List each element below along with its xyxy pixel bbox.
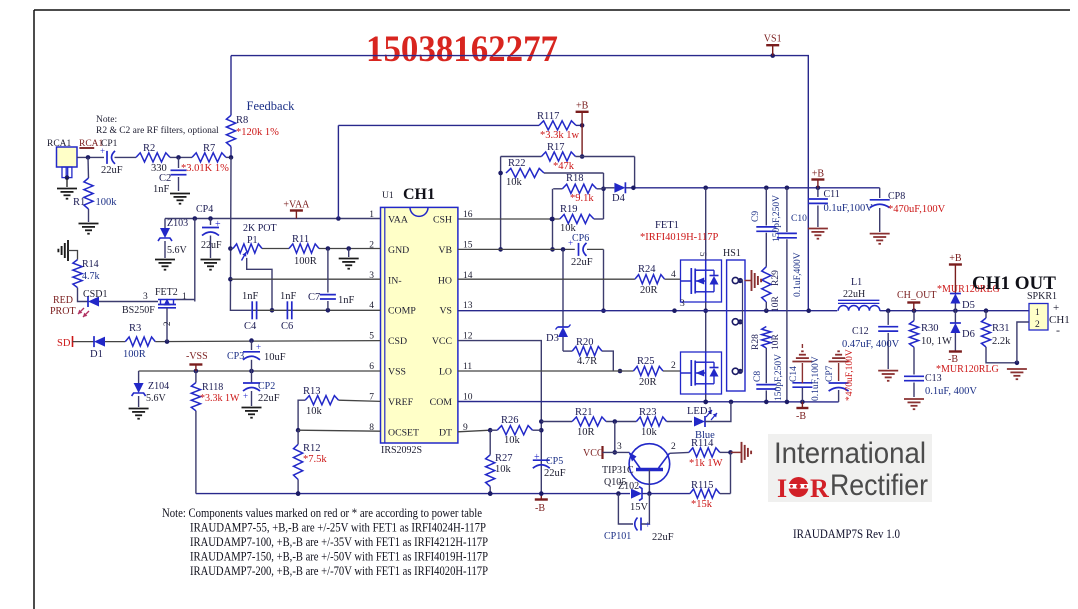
svg-text:R26: R26	[501, 415, 519, 426]
svg-text:+VAA: +VAA	[283, 200, 310, 211]
svg-text:5.6V: 5.6V	[146, 393, 167, 404]
svg-text:R11: R11	[292, 234, 309, 245]
svg-text:20R: 20R	[640, 285, 658, 296]
svg-text:VS: VS	[439, 306, 452, 317]
svg-text:PROT: PROT	[50, 306, 76, 317]
svg-text:R19: R19	[560, 204, 578, 215]
svg-text:C4: C4	[244, 321, 257, 332]
svg-text:R1: R1	[73, 197, 85, 208]
svg-text:R115: R115	[691, 480, 713, 491]
svg-text:22uF: 22uF	[101, 165, 123, 176]
svg-text:10k: 10k	[495, 464, 512, 475]
svg-text:4.7k: 4.7k	[82, 271, 100, 282]
svg-text:1: 1	[182, 292, 187, 302]
svg-text:-B: -B	[535, 503, 545, 514]
svg-text:Z104: Z104	[148, 381, 169, 392]
svg-text:CP5: CP5	[546, 456, 563, 467]
svg-text:R2: R2	[143, 143, 155, 154]
svg-text:C14: C14	[789, 366, 799, 382]
svg-text:CP101: CP101	[604, 531, 631, 542]
svg-text:*470uF,100V: *470uF,100V	[888, 204, 946, 215]
svg-text:0.47uF, 400V: 0.47uF, 400V	[842, 339, 900, 350]
svg-text:+B: +B	[576, 101, 589, 112]
svg-text:IRAUDAMP7-100, +B,-B are +/-35: IRAUDAMP7-100, +B,-B are +/-35V with FET…	[190, 534, 488, 549]
svg-text:R29: R29	[771, 270, 781, 286]
svg-text:4.7R: 4.7R	[577, 356, 597, 367]
svg-text:R8: R8	[236, 115, 248, 126]
svg-text:R22: R22	[508, 158, 526, 169]
svg-text:COMP: COMP	[388, 306, 416, 317]
svg-text:R24: R24	[638, 264, 656, 275]
svg-text:R: R	[810, 474, 829, 503]
svg-text:22uF: 22uF	[571, 257, 593, 268]
svg-text:GND: GND	[388, 245, 409, 256]
svg-text:2K POT: 2K POT	[243, 223, 277, 234]
svg-text:+: +	[243, 391, 248, 401]
svg-text:R25: R25	[637, 356, 655, 367]
svg-text:CP7: CP7	[825, 365, 835, 382]
svg-text:Z102: Z102	[618, 481, 639, 492]
svg-text:COM: COM	[430, 397, 453, 408]
svg-text:IRAUDAMP7S Rev 1.0: IRAUDAMP7S Rev 1.0	[793, 527, 900, 541]
svg-text:LED1: LED1	[687, 406, 713, 417]
svg-text:-VSS: -VSS	[186, 351, 208, 362]
svg-text:100R: 100R	[294, 256, 317, 267]
svg-text:4: 4	[671, 270, 676, 280]
svg-text:150pF,250V: 150pF,250V	[774, 354, 784, 401]
svg-text:Z103: Z103	[167, 218, 188, 229]
svg-text:R114: R114	[691, 438, 714, 449]
svg-text:R3: R3	[129, 323, 141, 334]
svg-text:Note:: Note:	[96, 115, 117, 125]
svg-text:*47k: *47k	[553, 161, 575, 172]
svg-text:1: 1	[1035, 308, 1040, 318]
svg-text:10k: 10k	[306, 406, 323, 417]
svg-text:R27: R27	[495, 453, 513, 464]
svg-text:CSD1: CSD1	[83, 289, 107, 300]
svg-text:100k: 100k	[96, 197, 118, 208]
svg-text:22uF: 22uF	[258, 393, 280, 404]
svg-text:International: International	[774, 437, 926, 470]
svg-text:RED: RED	[53, 295, 73, 306]
svg-text:R12: R12	[303, 443, 321, 454]
svg-text:0.1uF,400V: 0.1uF,400V	[793, 252, 803, 297]
svg-text:*MUR120RLG: *MUR120RLG	[936, 364, 999, 375]
svg-text:CP6: CP6	[572, 233, 589, 244]
svg-text:15038162277: 15038162277	[366, 29, 558, 70]
svg-text:Feedback: Feedback	[247, 99, 296, 113]
svg-text:CSH: CSH	[433, 215, 452, 226]
svg-text:2.2k: 2.2k	[992, 336, 1011, 347]
svg-text:R31: R31	[992, 323, 1010, 334]
svg-text:DT: DT	[439, 427, 452, 438]
svg-text:2: 2	[671, 442, 676, 452]
svg-text:R2 & C2 are RF filters, option: R2 & C2 are RF filters, optional	[96, 125, 219, 136]
svg-text:1nF: 1nF	[338, 295, 355, 306]
svg-text:IRAUDAMP7-200, +B,-B are +/-70: IRAUDAMP7-200, +B,-B are +/-70V with FET…	[190, 563, 488, 578]
svg-text:1nF: 1nF	[153, 184, 170, 195]
svg-text:R23: R23	[639, 407, 657, 418]
svg-text:FET2: FET2	[155, 287, 178, 298]
svg-text:1nF: 1nF	[242, 291, 259, 302]
svg-text:22uF: 22uF	[201, 240, 222, 251]
svg-text:CH_OUT: CH_OUT	[897, 290, 936, 301]
svg-text:R7: R7	[203, 143, 215, 154]
svg-text:20R: 20R	[639, 377, 657, 388]
svg-text:3: 3	[680, 299, 685, 309]
svg-text:C6: C6	[281, 321, 293, 332]
svg-text:-B: -B	[796, 411, 806, 422]
svg-text:2: 2	[1035, 320, 1040, 330]
svg-text:Note: Components values marked: Note: Components values marked on red or…	[162, 505, 482, 520]
svg-text:*1k 1W: *1k 1W	[689, 458, 723, 469]
svg-text:VSS: VSS	[388, 367, 406, 378]
svg-text:-: -	[1056, 323, 1060, 337]
svg-text:+B: +B	[949, 253, 962, 264]
svg-text:0.1uF, 400V: 0.1uF, 400V	[925, 386, 977, 397]
svg-text:10k: 10k	[641, 427, 658, 438]
svg-text:BS250F: BS250F	[122, 305, 155, 316]
svg-text:R21: R21	[575, 407, 593, 418]
svg-text:CP4: CP4	[196, 204, 213, 215]
svg-text:10R: 10R	[771, 334, 781, 351]
svg-text:C8: C8	[753, 371, 763, 382]
svg-text:2: 2	[671, 361, 676, 371]
svg-text:CH1 OUT: CH1 OUT	[972, 273, 1056, 294]
svg-text:HO: HO	[438, 275, 452, 286]
svg-text:10, 1W: 10, 1W	[921, 336, 952, 347]
svg-text:VREF: VREF	[388, 397, 414, 408]
svg-text:3: 3	[143, 292, 148, 302]
svg-text:22uF: 22uF	[544, 468, 566, 479]
svg-text:LO: LO	[439, 367, 452, 378]
svg-text:15V: 15V	[630, 502, 649, 513]
svg-text:*470uF,100V: *470uF,100V	[845, 349, 855, 401]
svg-text:3: 3	[617, 442, 622, 452]
svg-text:2: 2	[162, 322, 172, 327]
svg-text:L1: L1	[851, 277, 862, 288]
svg-text:13: 13	[463, 301, 473, 311]
svg-text:10k: 10k	[506, 177, 523, 188]
svg-text:*3.01K 1%: *3.01K 1%	[181, 163, 229, 174]
svg-text:R28: R28	[751, 334, 761, 350]
svg-text:+: +	[645, 520, 651, 531]
svg-text:100R: 100R	[123, 349, 146, 360]
svg-text:IRAUDAMP7-55, +B,-B are +/-25V: IRAUDAMP7-55, +B,-B are +/-25V with FET1…	[190, 520, 486, 535]
svg-text:CSD: CSD	[388, 336, 407, 347]
svg-text:C12: C12	[852, 326, 869, 337]
svg-text:C9: C9	[751, 211, 761, 222]
svg-text:10k: 10k	[504, 435, 521, 446]
svg-text:D5: D5	[962, 300, 975, 311]
svg-text:TIP31C: TIP31C	[602, 465, 634, 476]
svg-text:OCSET: OCSET	[388, 427, 419, 438]
svg-text:R13: R13	[303, 386, 321, 397]
svg-text:D1: D1	[90, 349, 103, 360]
svg-text:FET1: FET1	[655, 220, 679, 231]
svg-text:VB: VB	[438, 245, 452, 256]
svg-text:1: 1	[369, 210, 374, 220]
svg-text:22uH: 22uH	[843, 289, 865, 300]
svg-text:R17: R17	[547, 142, 565, 153]
svg-text:22uF: 22uF	[652, 532, 674, 543]
svg-text:+: +	[534, 452, 540, 463]
svg-text:*15k: *15k	[691, 499, 713, 510]
svg-text:D4: D4	[612, 193, 626, 204]
svg-text:5: 5	[698, 252, 708, 257]
svg-text:C11: C11	[824, 189, 840, 200]
svg-text:16: 16	[463, 210, 473, 220]
svg-text:1nF: 1nF	[280, 291, 297, 302]
svg-text:CP2: CP2	[258, 381, 275, 392]
svg-text:0.1uF,100V: 0.1uF,100V	[824, 203, 874, 214]
svg-text:+: +	[1053, 302, 1059, 314]
svg-text:CP8: CP8	[888, 191, 905, 202]
svg-text:IRAUDAMP7-150, +B,-B are +/-50: IRAUDAMP7-150, +B,-B are +/-50V with FET…	[190, 549, 488, 564]
svg-text:+: +	[256, 342, 261, 352]
svg-text:R20: R20	[576, 337, 594, 348]
svg-text:+: +	[100, 146, 105, 156]
svg-text:*IRFI4019H-117P: *IRFI4019H-117P	[640, 232, 719, 243]
svg-text:RCA1: RCA1	[47, 139, 72, 149]
svg-text:HS1: HS1	[723, 248, 741, 259]
svg-text:5.6V: 5.6V	[167, 245, 188, 256]
svg-text:R18: R18	[566, 173, 584, 184]
svg-text:0.1uF,100V: 0.1uF,100V	[811, 356, 821, 401]
svg-text:C7: C7	[308, 292, 320, 303]
svg-text:R30: R30	[921, 323, 939, 334]
svg-text:SD: SD	[57, 338, 71, 349]
svg-text:I: I	[777, 474, 787, 503]
svg-text:C2: C2	[159, 173, 171, 184]
svg-text:10R: 10R	[771, 296, 781, 313]
svg-text:VCC: VCC	[432, 336, 452, 347]
svg-text:VS1: VS1	[764, 34, 782, 45]
svg-text:+: +	[568, 238, 573, 248]
svg-text:*9.1k: *9.1k	[570, 193, 594, 204]
svg-text:+B: +B	[812, 169, 825, 180]
svg-text:CH1: CH1	[403, 186, 435, 203]
svg-text:CP3: CP3	[227, 351, 244, 362]
svg-text:R118: R118	[202, 382, 223, 393]
svg-text:D3: D3	[546, 333, 559, 344]
svg-text:*3.3k 1w: *3.3k 1w	[540, 130, 580, 141]
svg-text:D6: D6	[962, 329, 975, 340]
svg-text:IRS2092S: IRS2092S	[381, 445, 422, 456]
svg-text:10uF: 10uF	[264, 352, 286, 363]
svg-text:Rectifier: Rectifier	[830, 469, 928, 502]
svg-text:VAA: VAA	[388, 215, 408, 226]
svg-text:*3.3k 1W: *3.3k 1W	[200, 393, 240, 404]
svg-text:150pF,250V: 150pF,250V	[772, 195, 782, 242]
svg-text:R14: R14	[82, 259, 99, 270]
svg-text:*7.5k: *7.5k	[303, 454, 327, 465]
svg-text:U1: U1	[382, 191, 394, 201]
svg-text:IN-: IN-	[388, 275, 402, 286]
svg-text:10R: 10R	[577, 427, 595, 438]
svg-text:*120k 1%: *120k 1%	[236, 127, 279, 138]
svg-text:P1: P1	[247, 235, 258, 246]
svg-text:+: +	[215, 219, 221, 230]
svg-text:R117: R117	[537, 111, 559, 122]
svg-text:C10: C10	[791, 214, 807, 224]
svg-text:VCC: VCC	[583, 448, 604, 459]
